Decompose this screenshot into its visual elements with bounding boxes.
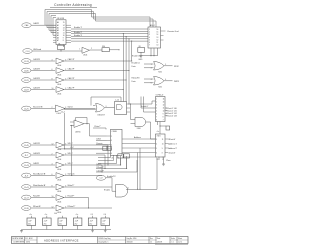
wire GNDisab (32, 50, 82, 52)
and-gate G4 (135, 118, 146, 127)
wire bus 5 (71, 36, 148, 38)
title block dividers (25, 237, 178, 244)
svg-text:+5v: +5v (157, 131, 160, 133)
svg-text:J1-9: J1-9 (24, 175, 28, 177)
U4 internal pin numbers (156, 139, 163, 159)
wire to J2 pin (151, 101, 153, 104)
svg-text:CC4: CC4 (26, 51, 30, 53)
wire into J2 (152, 100, 156, 102)
svg-text:LM105/7: LM105/7 (98, 114, 105, 116)
wire J1-P tail (58, 148, 107, 150)
svg-text:Drawing No. 5: Drawing No. 5 (99, 241, 109, 244)
svg-text:CA12'B': CA12'B' (33, 87, 41, 90)
wire G6 in b (70, 124, 74, 126)
wire row155 down (104, 155, 106, 169)
wire G1 input b (144, 67, 154, 69)
svg-text:C-6: C-6 (104, 214, 107, 216)
wire row145 down (107, 145, 109, 165)
svg-text:25v: 25v (102, 224, 105, 226)
junction (88, 207, 89, 208)
ground symbol under C6 (104, 230, 107, 233)
wire loop 5 left (52, 18, 54, 36)
wire to R5 (160, 125, 166, 127)
svg-text:CONN-J2: CONN-J2 (156, 95, 164, 97)
svg-text:Enable: Enable (104, 189, 110, 191)
wire G3 out (105, 107, 115, 109)
input bubble J1-41 (22, 185, 31, 190)
wire CA12'P' run (64, 89, 123, 91)
resistor R1 (58, 45, 65, 49)
wire R3 common (141, 55, 158, 57)
svg-text:J1-33: J1-33 (24, 61, 29, 63)
buffer gate CA9'B' (56, 162, 64, 171)
op-amp G6 (74, 120, 84, 128)
wire bus 4 (71, 33, 148, 35)
title block underline (155, 244, 188, 246)
svg-text:Cnt'7': Cnt'7' (97, 162, 102, 165)
svg-text:CA14'P': CA14'P' (68, 68, 76, 71)
svg-text:A14-2: A14-2 (150, 24, 155, 27)
svg-text:.1uF: .1uF (59, 220, 63, 222)
wire into U3 a (90, 135, 107, 137)
junction (104, 168, 105, 169)
wire R6 down (120, 158, 122, 165)
wire J1-P into U3 (65, 148, 107, 150)
bubble Enable19 (96, 175, 105, 180)
svg-text:7: 7 (163, 120, 164, 122)
input bubble J1-17 (22, 195, 31, 200)
svg-text:25v: 25v (44, 224, 47, 226)
wire J1-33 to buffer (31, 60, 55, 62)
svg-text:10: 10 (63, 35, 65, 37)
svg-text:6: 6 (111, 153, 112, 155)
wire Read'P' run (64, 197, 89, 199)
wire CA6 to U1 (31, 24, 53, 26)
junction (126, 168, 127, 169)
U3 left pin stubs (107, 136, 111, 153)
buffer gate WriteStrobe'B' (56, 184, 64, 193)
junction (159, 125, 160, 126)
svg-text:25v: 25v (28, 224, 31, 226)
wire J1-39 to buffer (31, 207, 55, 209)
svg-text:LS04: LS04 (57, 202, 61, 204)
wire G0 out (90, 49, 103, 51)
wire G2 out (164, 80, 173, 82)
svg-text:WR'B': WR'B' (174, 81, 180, 83)
svg-text:3: 3 (156, 105, 157, 107)
junction (118, 49, 119, 50)
wire to U1 pin 4 (51, 32, 56, 34)
svg-text:8: 8 (163, 117, 164, 119)
svg-text:7: 7 (156, 117, 157, 119)
svg-text:RData'P': RData'P' (97, 166, 105, 169)
wire bus 6 (71, 38, 148, 40)
svg-text:2: 2 (52, 107, 53, 109)
latch U3 (111, 129, 123, 155)
wire to U1 pin 5 (53, 34, 56, 36)
wire C6 top tick (104, 216, 106, 218)
svg-text:8: 8 (63, 40, 64, 42)
svg-text:Dwg No. 0350: Dwg No. 0350 (127, 238, 137, 240)
svg-text:10: 10 (162, 143, 164, 145)
svg-text:Date: Date (157, 237, 160, 240)
wire feedback loop G3 (91, 97, 121, 106)
wire U2 pin down 2 (153, 48, 155, 56)
svg-text:RData'3' 142: RData'3' 142 (167, 112, 177, 115)
junction (131, 60, 132, 61)
svg-text:LS04: LS04 (57, 191, 61, 193)
resistor R7 (124, 154, 130, 158)
wire G4 out to U4 (146, 122, 156, 139)
svg-text:LM741: LM741 (75, 131, 81, 133)
wire bus 7 (71, 40, 148, 42)
svg-text:J1-39: J1-39 (24, 208, 29, 210)
buffer gate Read'B' (56, 195, 64, 204)
svg-text:RData'4' 143: RData'4' 143 (167, 115, 177, 118)
svg-text:GNDisab: GNDisab (33, 49, 42, 51)
wire J1-87 to buffer (31, 89, 55, 91)
junction (128, 70, 129, 71)
junction (60, 50, 61, 51)
svg-text:LS04: LS04 (57, 180, 61, 182)
resistor R3 (138, 48, 145, 53)
junction (86, 123, 87, 124)
svg-text:RData'B': RData'B' (33, 205, 41, 208)
svg-text:12ma: 12ma (166, 160, 171, 162)
svg-text:1: 1 (149, 29, 150, 31)
wire bus5 to row80 (125, 37, 127, 102)
capacitor C2 (43, 218, 52, 226)
C4 internal text (74, 220, 78, 225)
input bubble J1-45 (22, 143, 31, 148)
svg-text:CData'7': CData'7' (94, 125, 101, 128)
wire U3 bottom a (98, 155, 111, 157)
wire J1-45 to buffer (31, 144, 55, 146)
wire to U3 top (93, 128, 106, 129)
svg-text:Read'P': Read'P' (68, 196, 75, 198)
wire bus7 to row61 (131, 41, 133, 61)
svg-text:1: 1 (79, 49, 80, 51)
junction (130, 103, 131, 104)
svg-text:14: 14 (157, 34, 159, 36)
capacitor C3 (58, 218, 67, 226)
junction (123, 89, 124, 90)
wire U1 pin down (63, 45, 65, 48)
contact box K1b (107, 146, 111, 150)
svg-text:J1-43: J1-43 (24, 165, 29, 167)
svg-text:Scale: Scale (171, 238, 175, 240)
svg-text:CA15'B': CA15'B' (33, 58, 41, 61)
driver U4 (156, 134, 166, 157)
svg-text:+5v: +5v (76, 214, 79, 216)
svg-text:10: 10 (163, 111, 165, 113)
svg-text:A: A (151, 241, 153, 244)
junction (123, 33, 124, 34)
input bubble J1-43 (22, 163, 31, 168)
wire C2 top tick (46, 216, 48, 218)
svg-text:SlaveClr'B': SlaveClr'B' (33, 107, 43, 109)
wire into U3 e (96, 152, 107, 154)
wire C4 top tick (77, 216, 79, 218)
svg-text:LS04: LS04 (57, 159, 61, 161)
svg-text:4: 4 (156, 143, 157, 145)
input bubble J1-9 (22, 173, 31, 178)
wire U5 out to right (130, 103, 152, 105)
svg-text:CA9'B': CA9'B' (33, 162, 40, 165)
svg-text:7408: 7408 (137, 128, 141, 130)
wire to U1 pin 2 (47, 27, 56, 29)
wire to U1 pin 3 (49, 29, 56, 31)
buffer gate SlaveClr'B' (56, 105, 66, 115)
svg-text:LS04: LS04 (57, 212, 61, 214)
C3 internal text (59, 220, 63, 225)
wire Enable'1' (71, 28, 148, 30)
svg-text:RData'P': RData'P' (68, 205, 76, 208)
svg-text:.1uF: .1uF (28, 220, 32, 222)
input bubble J1-29 (22, 78, 31, 83)
U4 right pin stubs (165, 139, 168, 153)
wire down to J2 c (143, 97, 145, 113)
svg-text:Write'P': Write'P' (68, 184, 75, 187)
junction (126, 79, 127, 80)
wire J2 bottom stub (157, 122, 159, 126)
contact box K1a (103, 146, 107, 150)
U3 bottom pin numbers (112, 157, 119, 159)
capacitor C1 (27, 218, 36, 226)
wire G6 out down (89, 124, 91, 136)
svg-text:13: 13 (157, 37, 159, 39)
svg-text:11: 11 (127, 188, 129, 190)
J2 internal pin numbers (156, 99, 164, 122)
buffer IC U2 (148, 27, 161, 48)
wire J1-9 to buffer (31, 175, 55, 177)
svg-text:11: 11 (157, 42, 159, 44)
svg-text:4: 4 (156, 108, 157, 110)
nand-gate G5 (116, 184, 128, 197)
svg-text:13: 13 (163, 102, 165, 104)
svg-text:NORTH STAR: NORTH STAR (12, 237, 24, 240)
wire U1 to R1 (59, 44, 61, 47)
wire S/D P run (64, 144, 108, 146)
svg-text:Chassis: Chassis (96, 143, 102, 145)
wire C3 bottom tick (61, 226, 63, 230)
svg-text:Enable'1': Enable'1' (141, 106, 149, 108)
C5 internal text (89, 220, 93, 225)
wire Enable19 to G5 (106, 178, 116, 191)
wire into J2 left b (141, 107, 156, 109)
wire bus CData'P' (96, 171, 137, 173)
svg-text:Sheet: Sheet (178, 237, 183, 240)
junction (71, 175, 72, 176)
resistor R2 (102, 48, 109, 52)
svg-text:LS04: LS04 (57, 169, 61, 171)
svg-text:CA6: CA6 (25, 24, 29, 27)
svg-text:6: 6 (52, 69, 53, 71)
wire J1-25 to buffer (31, 108, 55, 110)
title underline (50, 7, 97, 9)
U3 right pin stubs and bus to U4 (122, 139, 156, 157)
wire loop 4 left (50, 16, 52, 33)
buffer gate CA12'B' (56, 87, 64, 96)
wire loop 3 (49, 14, 156, 31)
svg-text:SlvCom: SlvCom (68, 174, 75, 176)
svg-text:CA13'B': CA13'B' (33, 77, 41, 80)
wire bus turn up (136, 160, 138, 172)
svg-text:2: 2 (156, 102, 157, 104)
svg-text:CA13'P': CA13'P' (68, 77, 76, 80)
svg-text:15: 15 (157, 32, 159, 34)
junction (137, 189, 138, 190)
ground symbol GND2 (20, 230, 23, 233)
wire U4 bus down b (139, 148, 141, 189)
wire to U1 pin 1 (45, 24, 56, 26)
or-gate G1 (154, 62, 165, 71)
U4 bottom pin numbers (157, 159, 164, 161)
svg-text:Address: Address (134, 136, 141, 139)
wire row165 down (101, 165, 103, 172)
svg-text:.1uF: .1uF (44, 220, 48, 222)
wire G5 out (126, 188, 157, 190)
input bubble J1-7 (22, 153, 31, 158)
wire C6 bottom tick (104, 226, 106, 230)
wire row197 down (88, 198, 90, 209)
svg-text:5: 5 (151, 83, 152, 85)
wire J2 to U4 (159, 122, 161, 135)
svg-text:LS04: LS04 (83, 55, 87, 57)
wire J1-17 to buffer (31, 197, 55, 199)
svg-text:C180B: C180B (112, 131, 118, 133)
resistor R6 (118, 154, 124, 158)
input bubble J1-39 (22, 206, 31, 211)
ground symbol under C5 (91, 230, 94, 233)
ground symbol under U4 (162, 160, 165, 166)
svg-text:.1uF: .1uF (74, 220, 78, 222)
wire G2 input b (144, 82, 154, 84)
input bubble J1-25 (22, 106, 31, 111)
svg-text:Read'B': Read'B' (33, 196, 40, 198)
svg-text:A2: A2 (57, 26, 59, 29)
svg-text:Address'2': Address'2' (168, 147, 177, 150)
svg-text:7432: 7432 (158, 71, 162, 73)
svg-text:7: 7 (149, 45, 150, 47)
svg-text:3: 3 (149, 34, 150, 36)
wire G6 in a (70, 121, 74, 123)
buffer gate CA15'B' (56, 58, 64, 67)
svg-text:03505-B: 03505-B (127, 242, 133, 244)
svg-text:.1uF: .1uF (89, 220, 93, 222)
wire G4 in a (131, 119, 136, 121)
wire U4 bus down a (137, 153, 139, 190)
svg-text:9: 9 (163, 114, 164, 116)
wire S/D P run (64, 154, 105, 156)
capacitor C4 (73, 218, 82, 226)
junction (131, 41, 132, 42)
svg-text:SlvClr: SlvClr (68, 107, 74, 109)
svg-text:3: 3 (106, 106, 107, 108)
svg-text:9: 9 (63, 38, 64, 40)
svg-text:SlaveActive'B': SlaveActive'B' (33, 173, 46, 176)
junction (150, 55, 151, 56)
input bubble J1-85 (22, 68, 31, 73)
svg-text:3: 3 (165, 64, 166, 66)
svg-text:Controller Addressing: Controller Addressing (54, 3, 92, 7)
svg-text:RData'2' 141: RData'2' 141 (167, 109, 177, 112)
wire loop 1 (45, 10, 150, 28)
wire J1-41 to buffer (31, 186, 55, 188)
svg-text:CA10'B': CA10'B' (33, 152, 41, 155)
wire G5 out up (156, 158, 158, 189)
svg-text:LM105 Corp Dwg: LM105 Corp Dwg (99, 237, 111, 240)
svg-text:2: 2 (149, 32, 150, 34)
capacitor C5 (88, 218, 97, 226)
svg-text:J1-25: J1-25 (24, 108, 29, 110)
svg-text:LS04: LS04 (57, 149, 61, 151)
junction (139, 189, 140, 190)
wire bus Cnt'7' (96, 164, 121, 166)
svg-text:ADDRESS INTERFACE: ADDRESS INTERFACE (44, 238, 79, 242)
svg-text:P.O. BOX: P.O. BOX (25, 238, 33, 240)
svg-text:S/D P: S/D P (68, 143, 74, 145)
svg-text:26: 26 (112, 157, 114, 159)
wire Write'P' run (64, 186, 112, 188)
decoder U1 (56, 20, 66, 45)
svg-text:4670: 4670 (26, 242, 30, 244)
svg-text:1: 1 (151, 64, 152, 66)
wire C1 top tick (30, 216, 32, 218)
svg-text:6: 6 (156, 152, 157, 154)
svg-text:25v: 25v (89, 224, 92, 226)
wire U2 pin down 1 (150, 48, 152, 56)
C2 internal text (44, 220, 48, 225)
svg-text:4: 4 (52, 59, 53, 61)
svg-text:74LS138: 74LS138 (57, 18, 65, 20)
ground symbol GND1 (138, 52, 143, 61)
svg-text:1: 1 (156, 99, 157, 101)
svg-text:Enable'Out': Enable'Out' (132, 55, 142, 58)
buffer gate CA13'B' (56, 77, 64, 86)
U1 internal pin text (57, 21, 65, 42)
wire loop 2 (47, 12, 153, 28)
buffer gate SlaveActive'B' (56, 173, 64, 182)
svg-text:Rev: Rev (150, 238, 153, 240)
svg-text:13: 13 (63, 27, 65, 29)
svg-text:5: 5 (149, 39, 150, 41)
wire feedback from SlaveActive (71, 125, 73, 175)
wire down to J2 b (140, 97, 142, 109)
wire S/D P run (64, 164, 102, 166)
svg-text:Enable'xx': Enable'xx' (132, 62, 141, 64)
svg-text:S/D P: S/D P (68, 163, 74, 165)
svg-text:12: 12 (52, 206, 54, 208)
svg-text:+5v: +5v (45, 214, 48, 216)
svg-text:LS04: LS04 (57, 65, 61, 67)
svg-text:3: 3 (111, 140, 112, 142)
wire SlvCom run (64, 175, 102, 177)
U2 internal text (149, 29, 158, 47)
svg-text:Address'1': Address'1' (168, 142, 177, 145)
input bubble J1-33 (22, 59, 31, 64)
svg-text:LS04: LS04 (57, 113, 61, 115)
wire CA14'P' run (64, 70, 129, 72)
junction (101, 171, 102, 172)
wire U4 bottom pin a (158, 157, 160, 161)
svg-text:12: 12 (52, 143, 54, 145)
junction (128, 103, 129, 104)
U1 left pin stubs (53, 25, 56, 43)
or-gate G2 (154, 77, 165, 86)
junction (128, 38, 129, 39)
svg-text:10: 10 (52, 196, 54, 198)
